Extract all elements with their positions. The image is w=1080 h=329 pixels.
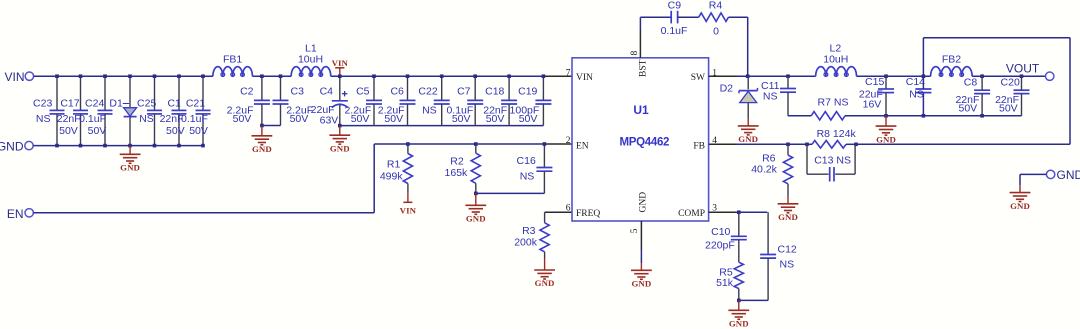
svg-text:R8 124k: R8 124k xyxy=(817,128,857,140)
svg-text:GND: GND xyxy=(252,144,272,154)
svg-text:GND: GND xyxy=(1010,201,1030,211)
power port VIN at C4 xyxy=(332,58,349,76)
wire feedback tap xyxy=(922,38,924,116)
svg-text:63V: 63V xyxy=(320,114,339,126)
svg-text:C25: C25 xyxy=(137,97,156,109)
svg-text:NS: NS xyxy=(763,91,778,103)
svg-text:R4: R4 xyxy=(709,0,723,12)
svg-text:50V: 50V xyxy=(999,102,1018,114)
ground symbol below C2 xyxy=(252,126,273,155)
svg-text:L2: L2 xyxy=(830,42,842,54)
wire R4 to SW xyxy=(729,17,748,76)
svg-text:VIN: VIN xyxy=(576,73,593,83)
svg-text:GND: GND xyxy=(0,140,24,154)
wire GND terminal xyxy=(1020,174,1046,185)
resistor R4 xyxy=(699,0,729,37)
svg-text:C9: C9 xyxy=(668,0,682,12)
capacitor C25 xyxy=(137,74,162,147)
svg-text:7: 7 xyxy=(566,68,571,78)
svg-text:0.1uF: 0.1uF xyxy=(181,113,208,125)
svg-text:GND: GND xyxy=(631,279,651,289)
svg-text:0.1uF: 0.1uF xyxy=(79,113,106,125)
output terminal VOUT xyxy=(1006,62,1054,81)
U1 pin 7 VIN xyxy=(566,68,593,83)
resistor R5 xyxy=(716,262,743,302)
wire bank2 ground xyxy=(340,125,544,127)
svg-text:C21: C21 xyxy=(186,97,205,109)
svg-text:200k: 200k xyxy=(514,236,538,248)
capacitor C12 xyxy=(760,212,797,300)
capacitor C7 xyxy=(446,74,483,125)
wire C9 to R4 xyxy=(678,16,699,18)
svg-text:GND: GND xyxy=(876,134,896,144)
input terminal GND xyxy=(0,140,33,154)
svg-text:GND: GND xyxy=(738,134,758,144)
svg-text:VIN: VIN xyxy=(332,58,349,68)
svg-text:SW: SW xyxy=(691,73,705,83)
ground symbol below U1 xyxy=(631,263,652,288)
svg-text:GND: GND xyxy=(466,214,486,224)
svg-text:GND: GND xyxy=(535,278,555,288)
svg-text:EN: EN xyxy=(7,207,24,221)
svg-text:GND: GND xyxy=(1057,168,1080,182)
power port VIN below R1 xyxy=(400,192,417,216)
U1 pin 2 EN xyxy=(566,136,589,152)
ground symbol below R6 xyxy=(778,196,799,223)
svg-text:C23: C23 xyxy=(33,97,52,109)
svg-text:40.2k: 40.2k xyxy=(751,164,777,176)
output terminal GND xyxy=(1046,168,1080,182)
resistor R2 xyxy=(445,142,481,195)
svg-text:50V: 50V xyxy=(384,113,403,125)
svg-text:6: 6 xyxy=(566,204,571,214)
svg-text:GND: GND xyxy=(778,212,798,222)
capacitor C3 xyxy=(273,74,314,125)
wire SW pin stub xyxy=(709,75,737,77)
U1 pin 8 BST xyxy=(630,51,649,78)
svg-text:50V: 50V xyxy=(351,113,370,125)
wire FB pin stub xyxy=(709,143,736,145)
wire L2 to FB2 xyxy=(857,74,931,78)
capacitor C6 xyxy=(378,74,416,125)
svg-text:50V: 50V xyxy=(290,113,309,125)
svg-text:165k: 165k xyxy=(445,167,469,179)
svg-text:NS: NS xyxy=(36,113,51,125)
ground symbol below C4 xyxy=(329,126,350,154)
svg-text:R2: R2 xyxy=(450,156,464,168)
wire FREQ pin stub xyxy=(545,211,572,213)
resistor R7 xyxy=(811,97,848,121)
svg-text:GND: GND xyxy=(639,192,649,213)
wire R2-C16 ground xyxy=(476,192,545,194)
svg-text:50V: 50V xyxy=(452,113,471,125)
svg-text:50V: 50V xyxy=(233,113,252,125)
svg-text:2: 2 xyxy=(566,136,571,146)
svg-text:FB: FB xyxy=(693,142,705,152)
ground symbol below D1 xyxy=(120,146,141,173)
svg-text:C10: C10 xyxy=(711,226,730,238)
U1 pin 4 FB xyxy=(693,136,717,152)
svg-text:VIN: VIN xyxy=(4,70,24,84)
svg-text:50V: 50V xyxy=(59,125,78,137)
resistor R6 xyxy=(751,144,792,195)
inductor L1 xyxy=(291,43,331,77)
svg-text:5: 5 xyxy=(630,228,640,233)
svg-text:GND: GND xyxy=(330,143,350,153)
U1 pin 1 SW xyxy=(691,68,718,83)
input terminal EN xyxy=(7,207,34,221)
svg-text:50V: 50V xyxy=(486,113,505,125)
svg-text:C20: C20 xyxy=(1001,76,1020,88)
wire R7 to ground node xyxy=(845,115,886,117)
svg-text:R3: R3 xyxy=(522,225,536,237)
capacitor C18 xyxy=(483,74,517,125)
wire feedback top xyxy=(923,37,1070,39)
svg-text:FB1: FB1 xyxy=(223,54,242,66)
svg-text:D1: D1 xyxy=(109,97,123,109)
svg-text:NS: NS xyxy=(520,171,535,183)
svg-text:BST: BST xyxy=(639,59,649,77)
svg-text:GND: GND xyxy=(729,319,749,329)
capacitor C24 xyxy=(79,74,112,147)
svg-text:C14: C14 xyxy=(906,76,925,88)
inductor L2 xyxy=(816,42,857,76)
svg-text:220pF: 220pF xyxy=(705,240,735,252)
svg-text:MPQ4462: MPQ4462 xyxy=(619,137,669,149)
capacitor C22 xyxy=(418,74,449,125)
svg-text:GND: GND xyxy=(120,163,140,173)
svg-text:16V: 16V xyxy=(863,99,882,111)
svg-text:C15: C15 xyxy=(865,76,884,88)
svg-text:8: 8 xyxy=(630,51,640,56)
wire C10-C12 bottom xyxy=(739,299,768,301)
ground symbol below C15 xyxy=(876,116,897,145)
svg-text:C24: C24 xyxy=(85,97,104,109)
wire COMP net xyxy=(736,210,767,214)
svg-text:R1: R1 xyxy=(387,159,401,171)
capacitor C8 xyxy=(955,76,990,116)
resistor R8 xyxy=(807,128,858,148)
svg-text:22nF: 22nF xyxy=(57,113,81,125)
svg-text:EN: EN xyxy=(576,142,589,152)
svg-text:50V: 50V xyxy=(189,125,208,137)
ground symbol below R3 xyxy=(534,259,555,289)
svg-text:C8: C8 xyxy=(964,76,978,88)
svg-text:51k: 51k xyxy=(716,277,734,289)
svg-text:C13 NS: C13 NS xyxy=(814,155,851,167)
svg-text:R7 NS: R7 NS xyxy=(818,97,849,109)
capacitor C10 xyxy=(705,212,747,262)
wire GND rail xyxy=(33,145,203,147)
ground symbol below R2 xyxy=(465,193,486,223)
svg-text:C6: C6 xyxy=(390,86,404,98)
svg-text:C16: C16 xyxy=(517,155,536,167)
svg-text:VIN: VIN xyxy=(400,206,417,216)
svg-text:C19: C19 xyxy=(518,86,537,98)
capacitor C15 xyxy=(859,76,894,118)
U1 pin 3 COMP xyxy=(678,204,717,220)
svg-text:U1: U1 xyxy=(633,103,649,117)
svg-text:C4: C4 xyxy=(320,86,334,98)
svg-text:COMP: COMP xyxy=(678,209,705,219)
wire COMP pin stub xyxy=(709,211,736,213)
svg-text:10uH: 10uH xyxy=(298,54,323,66)
svg-text:NS: NS xyxy=(422,104,437,116)
capacitor C16 xyxy=(517,142,553,193)
svg-text:C22: C22 xyxy=(418,86,437,98)
svg-text:FB2: FB2 xyxy=(942,54,961,66)
wire VIN pin stub xyxy=(543,75,572,77)
wire feedback right xyxy=(1069,38,1071,145)
svg-text:C12: C12 xyxy=(778,244,797,256)
svg-text:22nF: 22nF xyxy=(160,113,184,125)
ground symbol below R5 xyxy=(728,300,749,328)
capacitor C9 xyxy=(661,0,688,37)
svg-text:499k: 499k xyxy=(380,171,404,183)
diode D1 xyxy=(109,74,136,147)
svg-text:0: 0 xyxy=(713,25,719,37)
wire VIN rail xyxy=(34,75,544,77)
svg-text:C3: C3 xyxy=(291,86,305,98)
svg-text:D2: D2 xyxy=(720,82,734,94)
wire FB net xyxy=(736,143,809,147)
wire output ground xyxy=(886,114,1022,118)
wire C2-C3 ground xyxy=(262,125,281,127)
capacitor C23 xyxy=(33,74,64,147)
wire EN pin stub xyxy=(545,143,572,145)
capacitor C14 xyxy=(906,76,932,101)
U1 pin 5 GND xyxy=(630,192,649,233)
resistor R1 xyxy=(380,142,413,191)
svg-text:50V: 50V xyxy=(519,113,538,125)
wire SW net xyxy=(737,74,816,78)
wire BST riser xyxy=(640,17,671,58)
wire EN terminal run xyxy=(33,144,374,213)
capacitor C11 xyxy=(761,76,796,116)
svg-text:C18: C18 xyxy=(485,86,504,98)
capacitor C4 xyxy=(311,74,348,127)
svg-text:NS: NS xyxy=(139,113,154,125)
ground symbol below D2 xyxy=(738,119,759,145)
svg-text:50V: 50V xyxy=(88,125,107,137)
U1 pin 6 FREQ xyxy=(566,204,601,220)
svg-text:C5: C5 xyxy=(356,86,370,98)
svg-text:FREQ: FREQ xyxy=(576,209,600,219)
wire FB2 to VOUT xyxy=(972,74,1045,78)
wire U1 GND pin xyxy=(640,221,642,263)
wire C11 to R7 xyxy=(788,115,811,117)
resistor R3 xyxy=(514,212,549,258)
svg-text:NS: NS xyxy=(780,259,795,271)
capacitor C19 xyxy=(510,74,552,125)
ferrite bead FB1 xyxy=(213,54,253,77)
svg-text:C1: C1 xyxy=(167,97,181,109)
capacitor C2 xyxy=(227,74,270,127)
svg-text:50V: 50V xyxy=(166,125,185,137)
svg-text:C17: C17 xyxy=(60,97,79,109)
capacitor C21 xyxy=(181,74,210,147)
svg-text:C7: C7 xyxy=(457,86,471,98)
diode D2 xyxy=(720,76,758,118)
wire FB to feedback loop xyxy=(856,143,1070,145)
svg-text:0.1uF: 0.1uF xyxy=(661,25,688,37)
capacitor C13 xyxy=(807,144,855,181)
capacitor C1 xyxy=(160,74,187,147)
input terminal VIN xyxy=(4,70,33,84)
svg-text:VOUT: VOUT xyxy=(1006,62,1040,76)
svg-text:10uH: 10uH xyxy=(823,54,848,66)
capacitor C5 xyxy=(344,74,382,125)
svg-text:NS: NS xyxy=(909,89,924,101)
capacitor C20 xyxy=(995,76,1029,116)
ground symbol right xyxy=(1010,185,1031,211)
svg-text:C2: C2 xyxy=(240,86,254,98)
capacitor C17 xyxy=(57,74,88,147)
op-amp U1 body xyxy=(572,58,709,221)
ferrite bead FB2 xyxy=(931,54,973,77)
svg-text:50V: 50V xyxy=(959,102,978,114)
wire EN net xyxy=(374,143,545,145)
